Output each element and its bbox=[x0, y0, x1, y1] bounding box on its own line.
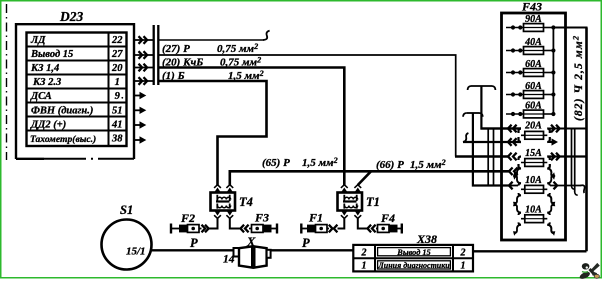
10А #1 right wire with end hook bbox=[550, 182, 585, 193]
20А right wire to power rail bbox=[547, 125, 586, 133]
svg-text:20: 20 bbox=[111, 63, 123, 74]
arrow pin38 Тахометр bbox=[134, 136, 146, 143]
svg-text:X38: X38 bbox=[416, 232, 437, 246]
svg-text:2: 2 bbox=[361, 247, 367, 258]
wire pin27 Вывод 15 bbox=[158, 55, 509, 157]
wire T4 bottom-left to F2 bbox=[202, 218, 218, 232]
wire (65)/(66) Р from T4 and T1 to fuse 15А bbox=[230, 168, 518, 186]
fuse F4 bbox=[376, 224, 402, 234]
svg-text:27: 27 bbox=[111, 49, 123, 60]
main wire S1 to X connector bbox=[152, 249, 235, 251]
fuse F3 bbox=[249, 224, 277, 234]
wire pin20 КчБ to relay T1 bbox=[158, 68, 344, 186]
svg-text:22: 22 bbox=[111, 35, 123, 46]
svg-text:КЗ 2.3: КЗ 2.3 bbox=[32, 77, 61, 88]
svg-text:9: 9 bbox=[115, 91, 121, 102]
connector X38 table bbox=[353, 245, 473, 272]
svg-text:ФВН (диагн.): ФВН (диагн.) bbox=[31, 105, 93, 116]
wire X38 right to power rail bbox=[473, 250, 587, 252]
wire pin27 to bus with chevrons bbox=[134, 51, 153, 59]
fuse F1 bbox=[301, 224, 329, 234]
fuse bus inside F43 bbox=[552, 28, 554, 115]
svg-text:1: 1 bbox=[461, 261, 466, 272]
svg-text:F1: F1 bbox=[308, 211, 323, 225]
power rail right vertical bbox=[585, 28, 588, 252]
svg-text:14: 14 bbox=[223, 254, 235, 266]
tools icon bottom right bbox=[579, 263, 600, 280]
connector bus double line bbox=[154, 25, 159, 85]
fuse 15А with connector brackets bbox=[513, 157, 555, 180]
fuse 10А #1 with connector brackets bbox=[513, 172, 555, 206]
hanging pair wires from 20А feed bbox=[572, 129, 578, 196]
svg-text:F3: F3 bbox=[254, 211, 269, 225]
svg-text:(82) Ч 2,5 мм2: (82) Ч 2,5 мм2 bbox=[571, 35, 585, 121]
svg-text:60А: 60А bbox=[525, 59, 542, 70]
thin pair verticals bbox=[488, 129, 493, 186]
svg-text:Вывод 15: Вывод 15 bbox=[30, 49, 73, 60]
svg-text:41: 41 bbox=[111, 119, 123, 130]
fuse box F43 bbox=[502, 13, 566, 240]
ECU D23 outer box bbox=[16, 24, 134, 159]
fuse 60А #1 bbox=[506, 69, 556, 77]
svg-text:X: X bbox=[246, 235, 256, 249]
fuse 10А #2 with connector brackets bbox=[513, 202, 555, 236]
relay T1 bbox=[338, 185, 363, 219]
connector X bbox=[234, 246, 271, 267]
svg-text:1: 1 bbox=[115, 77, 120, 88]
svg-text:15/1: 15/1 bbox=[126, 246, 146, 258]
chain line page border left bbox=[6, 4, 8, 160]
main wire X to X38 bbox=[271, 249, 354, 251]
svg-text:Т1: Т1 bbox=[366, 195, 380, 209]
svg-text:F2: F2 bbox=[180, 211, 195, 225]
fuse 90А bbox=[506, 24, 556, 32]
svg-text:10А: 10А bbox=[525, 205, 542, 216]
svg-text:Р: Р bbox=[190, 236, 198, 250]
svg-text:10А: 10А bbox=[525, 175, 542, 186]
D23 pin table grid bbox=[27, 33, 127, 147]
svg-text:(66) Р1,5 мм2: (66) Р1,5 мм2 bbox=[376, 158, 446, 171]
fuse F2 bbox=[171, 224, 202, 234]
svg-text:F4: F4 bbox=[380, 211, 395, 225]
fuse 40А bbox=[506, 47, 556, 55]
svg-text:40А: 40А bbox=[524, 37, 542, 48]
wire T4 bottom-right to F3 bbox=[230, 218, 249, 232]
svg-text:ДСА: ДСА bbox=[30, 91, 52, 102]
svg-text:Т4: Т4 bbox=[239, 195, 253, 209]
svg-text:F43: F43 bbox=[521, 0, 542, 14]
20А lower right stub arrow bbox=[547, 138, 558, 145]
svg-text:S1: S1 bbox=[120, 203, 133, 217]
svg-text:20А: 20А bbox=[524, 121, 542, 132]
svg-text:60А: 60А bbox=[525, 81, 542, 92]
svg-text:51: 51 bbox=[112, 105, 123, 116]
D23 pin labels bbox=[30, 35, 123, 145]
svg-text:60А: 60А bbox=[525, 101, 542, 112]
wire pin22 (ЛД) with end hook bbox=[158, 31, 270, 40]
wire T1 bottom-left to F1 bbox=[329, 218, 345, 232]
15А left chevrons on wire bbox=[508, 153, 517, 161]
stub wire B with curled top bbox=[463, 113, 509, 186]
svg-text:90А: 90А bbox=[525, 14, 542, 25]
svg-text:38: 38 bbox=[111, 134, 123, 145]
arrow pin41 ДД2 bbox=[134, 121, 146, 128]
wire pin20 to bus with chevrons bbox=[134, 64, 153, 72]
svg-text:КЗ 1,4: КЗ 1,4 bbox=[30, 63, 59, 74]
wire pin1 to bus with chevrons bbox=[134, 77, 153, 85]
svg-text:2: 2 bbox=[460, 247, 466, 258]
ignition switch S1 circle bbox=[102, 220, 152, 270]
wire pin1 Б to relay T4 bbox=[158, 81, 267, 185]
svg-text:ЛД: ЛД bbox=[30, 35, 46, 46]
relay T4 bbox=[211, 185, 236, 219]
arrow pin9 ДСА bbox=[134, 92, 146, 99]
wire 90А fuse to rail bbox=[553, 27, 587, 29]
arrow pin51 ФВН bbox=[134, 107, 146, 114]
svg-text:1: 1 bbox=[362, 261, 367, 272]
fuse 60А #3 bbox=[506, 110, 556, 118]
15А right wire to rail bbox=[547, 153, 586, 161]
X38 cell texts bbox=[361, 247, 466, 271]
wire pin22 to bus with chevrons bbox=[134, 36, 153, 44]
stub wire A with curled top bbox=[468, 86, 521, 129]
10А #1 left wire chevron bbox=[509, 182, 518, 190]
svg-text:Линия диагностики: Линия диагностики bbox=[377, 261, 450, 270]
fuse 60А #2 bbox=[506, 91, 556, 99]
20А left wires with chevrons bbox=[463, 125, 521, 146]
svg-text:ДД2 (+): ДД2 (+) bbox=[30, 119, 66, 130]
svg-text:Р: Р bbox=[302, 236, 310, 250]
svg-text:Вывод 15: Вывод 15 bbox=[396, 248, 430, 257]
svg-text:Тахометр(выс.): Тахометр(выс.) bbox=[30, 134, 96, 145]
wire T1 bottom-right to F4 bbox=[358, 218, 376, 232]
svg-text:D23: D23 bbox=[59, 9, 83, 24]
fuse 20А with connector brackets bbox=[519, 129, 550, 143]
svg-text:15А: 15А bbox=[525, 148, 542, 159]
